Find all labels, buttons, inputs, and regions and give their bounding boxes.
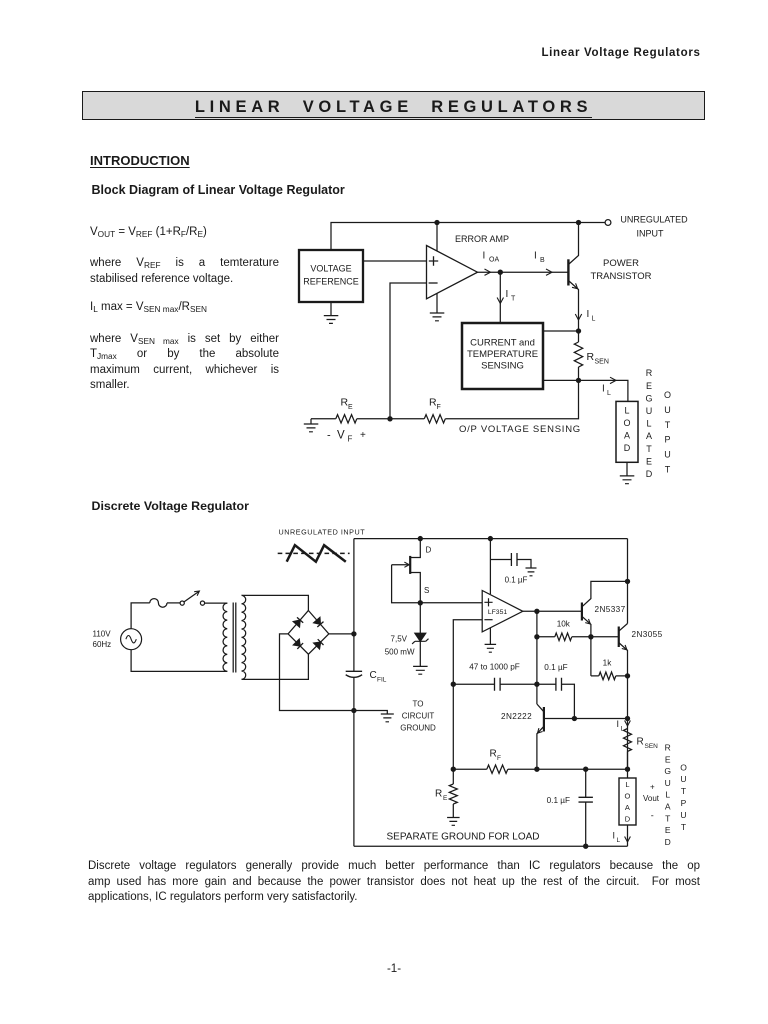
svg-text:POWER: POWER: [603, 258, 639, 269]
svg-text:T: T: [511, 296, 516, 303]
op-amp LF351: [482, 591, 523, 632]
transistor 2N2222: [543, 707, 545, 732]
svg-text:I: I: [506, 289, 509, 300]
wire: sensing block to emitter node: [543, 330, 579, 332]
output capacitor 0.1uF: [585, 769, 587, 846]
svg-text:R: R: [665, 743, 671, 753]
svg-text:U: U: [664, 405, 671, 415]
svg-text:1k: 1k: [603, 659, 613, 668]
svg-text:T: T: [681, 822, 686, 832]
ground below load: [620, 476, 635, 484]
op-amp V- to ground: [489, 628, 491, 644]
transistor 2N3055: [618, 627, 620, 648]
label: I L at Rsen: [625, 721, 631, 727]
svg-text:L: L: [646, 419, 651, 429]
ground below op-amp: [430, 313, 445, 321]
svg-text:E: E: [665, 825, 671, 835]
wire: output to load: [579, 380, 628, 401]
svg-text:U: U: [680, 810, 686, 820]
svg-text:LF351: LF351: [488, 609, 507, 616]
equation IL max: [90, 301, 207, 313]
svg-text:D: D: [625, 815, 631, 824]
transistor 2N5337: [581, 603, 583, 621]
resistor 1k: [591, 675, 628, 677]
wire: secondary bottom to bridge: [242, 654, 309, 679]
svg-text:7,5V: 7,5V: [391, 634, 408, 643]
svg-text:+: +: [360, 430, 366, 441]
wire: op-amp output: [523, 610, 582, 612]
wire: reference to + input: [363, 260, 427, 262]
svg-text:A: A: [624, 431, 630, 441]
bottom rail: separate ground for load: [354, 845, 628, 847]
op-amp U1 error amp triangle: [427, 246, 478, 299]
svg-text:T: T: [681, 786, 686, 796]
op-amp V+ supply from rail: [489, 539, 491, 594]
power transistor Q1: [567, 259, 569, 285]
wire: load to ground: [626, 462, 628, 476]
wire: o/p voltage sensing bottom rail: [311, 380, 579, 418]
svg-text:SEN: SEN: [645, 743, 659, 750]
svg-text:R: R: [646, 368, 653, 378]
svg-text:L: L: [625, 780, 629, 789]
wire: feedback to - input: [390, 283, 427, 419]
wire: bridge - to circuit ground run: [280, 634, 388, 714]
wire: op-amp output to transistor base: [478, 271, 569, 273]
resistor R_E to ground: [452, 769, 454, 817]
transformer T1 primary winding: [223, 603, 227, 671]
svg-text:A: A: [625, 803, 630, 812]
wire: bridge + output to left bus: [329, 633, 354, 635]
svg-text:V: V: [337, 430, 345, 442]
svg-text:O: O: [623, 418, 630, 428]
svg-text:O: O: [624, 792, 630, 801]
svg-text:L: L: [624, 406, 629, 416]
resistor R_E: [336, 415, 357, 423]
svg-text:OA: OA: [489, 257, 499, 264]
resistor 10k: [537, 636, 619, 638]
svg-text:T: T: [665, 420, 671, 430]
svg-text:U: U: [664, 450, 671, 460]
svg-text:-: -: [651, 811, 654, 821]
svg-text:0.1 µF: 0.1 µF: [505, 576, 528, 585]
svg-text:UNREGULATED: UNREGULATED: [620, 215, 688, 225]
svg-text:U: U: [665, 778, 671, 788]
ripple waveform annotation: [278, 552, 350, 554]
voltage reference block: [299, 250, 363, 302]
svg-text:L: L: [592, 316, 596, 323]
resistor R_SEN: [574, 342, 582, 367]
wire: source node to op-amp + input: [420, 602, 482, 604]
svg-text:REFERENCE: REFERENCE: [303, 277, 359, 287]
heading: Block Diagram: [92, 183, 345, 197]
op-amp supply wire (drawn under triangle): [436, 223, 438, 314]
svg-text:TO: TO: [413, 700, 424, 709]
svg-text:INPUT: INPUT: [637, 228, 665, 238]
capacitor 0.1uF (comp): [537, 684, 575, 718]
svg-text:SENSING: SENSING: [481, 361, 524, 372]
svg-text:D: D: [426, 546, 432, 555]
heading: INTRODUCTION: [90, 153, 190, 168]
svg-text:2N5337: 2N5337: [595, 605, 626, 614]
ground below voltage reference: [330, 302, 332, 316]
svg-text:CIRCUIT: CIRCUIT: [402, 712, 435, 721]
svg-text:TEMPERATURE: TEMPERATURE: [467, 349, 538, 360]
svg-text:GROUND: GROUND: [400, 724, 436, 733]
svg-text:I: I: [613, 831, 616, 841]
svg-text:2N3055: 2N3055: [632, 630, 663, 639]
svg-text:47 to 1000 pF: 47 to 1000 pF: [469, 662, 520, 671]
svg-text:D: D: [624, 443, 631, 453]
transformer core: [233, 603, 236, 673]
terminal: unregulated input circle: [605, 220, 611, 226]
wire: source top to fuse: [131, 603, 150, 629]
svg-text:FIL: FIL: [377, 677, 387, 684]
fuse: [150, 599, 167, 608]
svg-text:C: C: [370, 670, 377, 681]
svg-text:CURRENT and: CURRENT and: [470, 338, 535, 349]
svg-text:+: +: [650, 783, 655, 792]
svg-text:U: U: [646, 406, 653, 416]
svg-text:G: G: [664, 766, 671, 776]
ac source 110V 60Hz: [121, 629, 142, 650]
op-amp - sign: [429, 282, 438, 284]
svg-text:E: E: [646, 381, 652, 391]
svg-text:E: E: [665, 754, 671, 764]
svg-text:O: O: [664, 390, 671, 400]
svg-text:O: O: [680, 762, 687, 772]
svg-text:ERROR AMP: ERROR AMP: [455, 234, 509, 244]
label: I L emitter current: [575, 314, 581, 320]
svg-text:F: F: [497, 755, 501, 762]
wire: source bottom to primary: [131, 650, 227, 672]
svg-text:L: L: [665, 790, 670, 800]
svg-text:F: F: [437, 404, 441, 411]
svg-text:0.1 µF: 0.1 µF: [547, 796, 570, 805]
load block: [616, 401, 638, 462]
svg-text:I: I: [602, 384, 605, 395]
svg-text:A: A: [646, 431, 652, 441]
JFET Q2: [409, 556, 411, 574]
op-amp + sign: [429, 256, 438, 265]
wire: - input: [453, 620, 482, 770]
svg-text:I: I: [587, 309, 590, 320]
capacitor C_FIL: [346, 670, 362, 672]
wire: load to bottom rail: [627, 825, 629, 846]
wire: top unregulated input rail: [331, 223, 605, 251]
svg-text:I: I: [534, 251, 537, 262]
page number: [0, 963, 768, 975]
svg-text:Vout: Vout: [643, 794, 660, 803]
svg-text:E: E: [443, 795, 448, 802]
svg-text:L: L: [617, 837, 621, 844]
svg-text:O/P VOLTAGE SENSING: O/P VOLTAGE SENSING: [459, 424, 581, 435]
svg-text:SEN: SEN: [595, 359, 609, 366]
svg-text:T: T: [646, 444, 652, 454]
capacitor 0.1uF at rail: [490, 560, 531, 569]
svg-text:60Hz: 60Hz: [93, 640, 112, 649]
svg-text:500 mW: 500 mW: [385, 648, 415, 657]
svg-text:R: R: [490, 749, 497, 760]
ground: TO CIRCUIT GROUND: [381, 714, 394, 722]
svg-text:VOLTAGE: VOLTAGE: [310, 264, 351, 274]
svg-text:R: R: [435, 789, 442, 800]
svg-text:TRANSISTOR: TRANSISTOR: [590, 271, 651, 282]
svg-text:S: S: [424, 586, 429, 595]
wire: secondary top to bridge: [242, 595, 309, 610]
wire: rsen node to load: [627, 769, 629, 778]
svg-text:UNREGULATED INPUT: UNREGULATED INPUT: [279, 527, 366, 536]
svg-text:I: I: [617, 719, 620, 729]
svg-text:T: T: [665, 813, 670, 823]
svg-text:E: E: [348, 404, 353, 411]
node: rail junction above error amp: [435, 220, 439, 224]
svg-text:F: F: [348, 435, 353, 444]
paragraph: where Vref: [90, 257, 279, 269]
svg-text:L: L: [607, 390, 611, 397]
switch: [180, 601, 184, 605]
svg-text:SEPARATE GROUND FOR LOAD: SEPARATE GROUND FOR LOAD: [387, 832, 540, 843]
svg-text:G: G: [645, 393, 652, 403]
resistor R_SEN: [624, 729, 632, 752]
transformer secondary winding: [242, 595, 246, 679]
current and temperature sensing block: [462, 323, 543, 389]
svg-text:T: T: [665, 465, 671, 475]
ground at left of sense rail: [310, 419, 312, 424]
wire: fuse to switch: [167, 602, 180, 604]
svg-text:2N2222: 2N2222: [501, 712, 532, 721]
svg-text:-: -: [327, 430, 331, 442]
left bus / unregulated dc rail: [353, 539, 355, 847]
svg-text:D: D: [665, 837, 671, 847]
svg-text:P: P: [664, 435, 670, 445]
bottom paragraph: [88, 860, 700, 872]
vertical node wire from output: [536, 611, 538, 704]
right rail from top to 2N3055 collector: [627, 539, 629, 624]
paragraph: where Vsen: [90, 333, 279, 345]
bridge diode D3 (left->bottom): [293, 639, 300, 646]
svg-text:D: D: [646, 469, 653, 479]
svg-text:U: U: [680, 774, 686, 784]
svg-text:A: A: [665, 802, 671, 812]
node: rail junction at power transistor collector: [576, 220, 580, 224]
svg-text:E: E: [646, 456, 652, 466]
top rail of regulator: [354, 538, 628, 540]
page header: [0, 47, 701, 59]
bridge diode D4 (bottom->right): [314, 642, 321, 649]
svg-text:B: B: [540, 257, 545, 264]
bridge diode D1 (left->top): [293, 620, 300, 627]
output sense wire with R_F: [453, 768, 627, 770]
svg-text:10k: 10k: [557, 620, 571, 629]
wire: 2N2222 base to Rsen top: [544, 718, 628, 720]
bridge diode D2 (top->right): [314, 617, 321, 624]
wire: switch to transformer primary: [205, 602, 228, 604]
heading: Discrete Voltage Regulator: [92, 499, 249, 513]
bridge rectifier diamond: [288, 611, 329, 655]
load block: [619, 778, 636, 825]
svg-text:110V: 110V: [93, 630, 112, 639]
capacitor 47 to 1000 pF: [453, 683, 537, 685]
svg-text:L: L: [621, 726, 625, 733]
wire: sensing block lower tap: [543, 379, 579, 381]
svg-text:R: R: [587, 351, 595, 363]
title banner: [82, 91, 705, 120]
resistor R_F: [424, 415, 445, 423]
svg-text:I: I: [483, 251, 486, 262]
svg-text:P: P: [681, 798, 687, 808]
zener diode 7.5V 500mW: [419, 603, 421, 634]
svg-text:R: R: [637, 737, 644, 748]
svg-text:0.1 µF: 0.1 µF: [544, 663, 567, 672]
wire: IT drop to sensing block: [499, 272, 501, 323]
equation Vout: [90, 226, 207, 238]
